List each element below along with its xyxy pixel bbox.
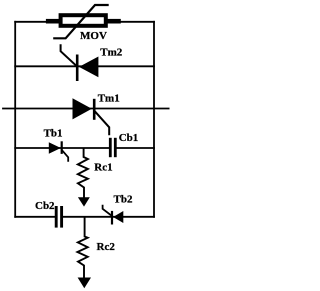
svg-text:Cb1: Cb1 bbox=[119, 132, 139, 144]
svg-text:Cb2: Cb2 bbox=[35, 200, 55, 212]
svg-text:Tm1: Tm1 bbox=[98, 93, 120, 105]
svg-text:MOV: MOV bbox=[80, 30, 107, 42]
svg-text:Rc2: Rc2 bbox=[97, 241, 116, 253]
svg-text:Tb2: Tb2 bbox=[114, 194, 133, 206]
svg-text:Tb1: Tb1 bbox=[44, 128, 63, 140]
svg-text:Tm2: Tm2 bbox=[100, 47, 123, 59]
svg-text:Rc1: Rc1 bbox=[94, 162, 112, 174]
